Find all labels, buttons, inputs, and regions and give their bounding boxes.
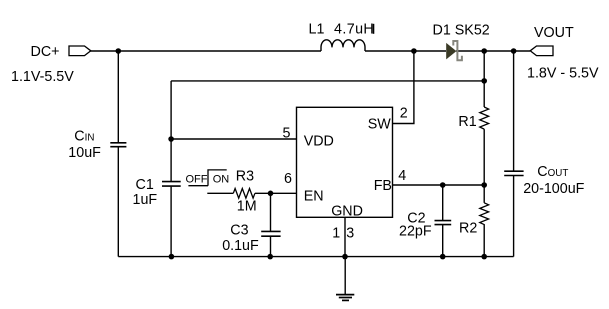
- svg-text:0.1uF: 0.1uF: [222, 238, 259, 254]
- wire C2 branch vertical: [442, 185, 444, 257]
- label 1.8V - 5.5V: [527, 66, 599, 82]
- label 22pF: [399, 224, 432, 240]
- label C1: [136, 177, 154, 193]
- svg-text:OFF: OFF: [186, 174, 208, 186]
- label 0.1uF: [222, 238, 259, 254]
- svg-text:6: 6: [284, 171, 292, 187]
- node C2/rail junction: [440, 254, 446, 260]
- svg-text:VDD: VDD: [304, 133, 334, 149]
- node GND/rail junction: [342, 254, 348, 260]
- node FB/C2 junction: [440, 182, 446, 188]
- svg-text:5: 5: [283, 126, 291, 142]
- label ON: [213, 174, 230, 186]
- wire EN left segment: [207, 192, 233, 194]
- node DC input junction: [116, 48, 122, 54]
- wire C3 branch vertical: [270, 193, 272, 256]
- svg-text:2: 2: [400, 106, 408, 122]
- label DC+: [31, 44, 60, 60]
- capacitor CIN: [110, 51, 126, 257]
- svg-text:C1: C1: [136, 177, 154, 193]
- svg-text:L1: L1: [309, 22, 325, 38]
- wire FB node to R2 top: [483, 185, 485, 203]
- svg-text:1.1V-5.5V: 1.1V-5.5V: [11, 69, 74, 85]
- wire R1 bottom to FB node: [483, 129, 485, 185]
- label 20-100uF: [523, 181, 584, 197]
- svg-text:R1: R1: [458, 114, 476, 130]
- svg-text:1uF: 1uF: [133, 192, 158, 208]
- pin label SW: [368, 116, 392, 132]
- svg-text:4: 4: [398, 168, 406, 184]
- wire R2 bottom to rail: [483, 224, 485, 257]
- node C1/rail junction: [169, 254, 175, 260]
- wire bottom rail: [118, 256, 513, 258]
- wire EN right segment: [255, 192, 297, 194]
- capacitor COUT: [504, 171, 523, 175]
- pin number 5: [283, 126, 291, 142]
- wire top rail left (DC+ to inductor): [91, 50, 322, 52]
- node R2/rail junction: [481, 254, 487, 260]
- pin label GND: [331, 203, 363, 219]
- capacitor C1: [162, 182, 181, 187]
- wire FB horizontal: [393, 184, 485, 186]
- label L1 4.7uH: [309, 22, 375, 38]
- svg-text:SW: SW: [368, 116, 392, 132]
- label C3: [230, 223, 248, 239]
- wire R1 top (rail to R1): [483, 51, 485, 107]
- pin number 4: [398, 168, 406, 184]
- svg-text:C3: C3: [230, 223, 248, 239]
- resistor R3: [233, 189, 255, 199]
- connector J1 DC+ input: [69, 46, 91, 56]
- wire GND pin to bottom rail: [344, 217, 346, 256]
- wire top rail right (diode to VOUT): [456, 50, 530, 52]
- label 1M: [237, 198, 257, 214]
- svg-text:GND: GND: [331, 203, 363, 219]
- svg-text:R2: R2: [459, 220, 477, 236]
- svg-text:EN: EN: [304, 188, 324, 204]
- svg-text:R3: R3: [236, 169, 254, 185]
- resistor R2: [480, 203, 489, 225]
- wire VDD pin 5 horizontal: [171, 138, 296, 140]
- label R1: [458, 114, 476, 130]
- svg-text:22pF: 22pF: [399, 224, 432, 240]
- svg-text:1.8V - 5.5V: 1.8V - 5.5V: [527, 66, 599, 82]
- svg-text:4.7uH: 4.7uH: [334, 22, 374, 38]
- inductor L1: [321, 40, 365, 51]
- svg-text:ON: ON: [213, 174, 230, 186]
- svg-text:1: 1: [332, 225, 340, 241]
- label VOUT: [534, 25, 574, 41]
- pin label EN: [304, 188, 324, 204]
- node FB/R1/R2 junction: [481, 182, 487, 188]
- label COUT: [537, 164, 568, 180]
- svg-text:10uF: 10uF: [68, 145, 101, 161]
- svg-text:FB: FB: [374, 178, 392, 194]
- capacitor C2: [435, 221, 452, 225]
- node C3/rail junction: [267, 254, 273, 260]
- svg-text:1M: 1M: [237, 198, 257, 214]
- label 1.1V-5.5V: [11, 69, 74, 85]
- resistor R1: [480, 107, 489, 129]
- label CIN: [74, 129, 94, 145]
- svg-text:20-100uF: 20-100uF: [523, 181, 584, 197]
- wire COUT branch vertical: [513, 51, 515, 257]
- label 1uF: [133, 192, 158, 208]
- node VOUT/COUT junction: [511, 48, 517, 54]
- capacitor C3: [261, 231, 280, 236]
- pin number 3: [346, 225, 354, 241]
- wire top rail middle (inductor to diode): [365, 50, 446, 52]
- switch S1 OFF/ON: [188, 170, 226, 186]
- node SW/L1/D1 junction: [411, 48, 417, 54]
- svg-text:VOUT: VOUT: [534, 25, 574, 41]
- svg-text:D1 SK52: D1 SK52: [433, 22, 490, 38]
- label C2: [407, 210, 425, 226]
- label R2: [459, 220, 477, 236]
- diode D1 (Schottky): [446, 41, 462, 60]
- wire SW pin to top rail: [393, 51, 414, 124]
- node VDD feed junction: [481, 78, 487, 84]
- op-amp U1 boost converter IC: [297, 107, 393, 217]
- pin number 1: [332, 225, 340, 241]
- pin number 6: [284, 171, 292, 187]
- wire VDD feed horizontal (y=81): [171, 80, 484, 82]
- pin label FB: [374, 178, 392, 194]
- svg-text:DC+: DC+: [31, 44, 60, 60]
- node VDD/C1 junction: [168, 136, 174, 142]
- connector J2 VOUT output: [530, 46, 553, 56]
- label R3: [236, 169, 254, 185]
- pin label VDD: [304, 133, 334, 149]
- ground: [336, 257, 354, 301]
- node EN/R3/C3 junction: [268, 191, 274, 197]
- wire VDD branch vertical / C1 branch: [170, 81, 172, 257]
- node VOUT/R1 junction: [481, 48, 487, 54]
- label D1 SK52: [433, 22, 490, 38]
- pin number 2: [400, 106, 408, 122]
- label 10uF: [68, 145, 101, 161]
- label OFF: [186, 174, 208, 186]
- svg-text:3: 3: [346, 225, 354, 241]
